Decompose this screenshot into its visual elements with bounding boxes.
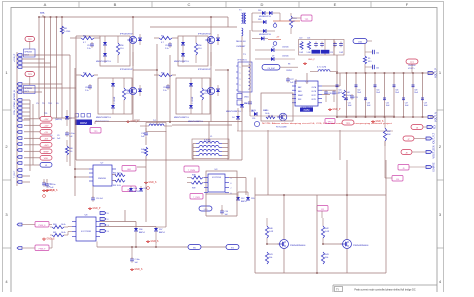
svg-text:a: a <box>240 67 241 69</box>
svg-text:1.0R: 1.0R <box>269 231 274 233</box>
node label box VA1 <box>122 166 136 172</box>
diode D4 <box>232 108 240 131</box>
svg-text:10.0k: 10.0k <box>61 232 66 234</box>
capacitor Cs2 <box>85 84 92 92</box>
port IOUT_FILT <box>426 132 436 144</box>
op-amp U7 SN6505 <box>89 163 116 187</box>
svg-text:C31: C31 <box>244 103 247 105</box>
wire Q5 conns <box>267 195 284 273</box>
wire source Q1 <box>132 44 134 66</box>
wire drain Q3 <box>210 17 212 36</box>
capacitor C29 <box>332 90 340 102</box>
wire bus vertical V1 <box>38 17 40 118</box>
wire outcap drop 8 <box>403 73 405 117</box>
capacitor C21 <box>314 42 318 48</box>
svg-text:10uF: 10uF <box>338 92 342 94</box>
stage box Q3 <box>178 36 208 66</box>
transistor Q3 <box>198 34 215 44</box>
node label VO_SEN oval <box>401 150 426 155</box>
svg-text:MMSZ5248BT1G: MMSZ5248BT1G <box>226 111 241 113</box>
svg-text:10.0k: 10.0k <box>61 224 66 226</box>
wire bus vertical V2 <box>44 17 46 118</box>
svg-text:D30: D30 <box>258 19 261 21</box>
svg-text:a: a <box>240 79 241 81</box>
ground GND_S left <box>45 189 58 192</box>
diode D52 <box>139 186 148 191</box>
svg-text:a: a <box>240 73 241 75</box>
svg-text:1.0W: 1.0W <box>339 52 343 54</box>
text pin notes <box>251 109 267 112</box>
diode Dz4b <box>189 86 193 114</box>
ground GND_P u7 <box>88 207 101 210</box>
diode D17 <box>266 11 280 21</box>
svg-text:C18: C18 <box>85 87 88 89</box>
svg-text:CS_ILIM: CS_ILIM <box>268 68 275 70</box>
svg-text:CON_V PWM_A PWM_B: CON_V PWM_A PWM_B <box>13 90 16 115</box>
node bus label2 <box>75 120 92 126</box>
node circle K2 <box>273 42 277 46</box>
svg-text:B: B <box>114 2 117 7</box>
wire aux bus <box>39 117 75 119</box>
svg-text:VOUT_P: VOUT_P <box>435 68 438 78</box>
op-amp U8 UCC27324 <box>72 215 100 242</box>
wire bridge lower rail <box>95 122 242 125</box>
wire U8 out wires <box>100 222 156 229</box>
node testpoint TP1 box <box>291 15 312 21</box>
ground GND_S diode <box>146 240 159 243</box>
wire red net <box>273 20 300 22</box>
wire source Q4 <box>210 95 212 118</box>
port IN15 <box>17 131 22 134</box>
svg-text:OUTC: OUTC <box>311 95 317 97</box>
ground GND_S out <box>371 120 384 123</box>
node power label P1 <box>40 117 52 122</box>
svg-text:49.9: 49.9 <box>368 61 372 63</box>
resistor Rpd2 <box>122 78 129 114</box>
svg-text:MMSZ5248BT1G: MMSZ5248BT1G <box>174 61 189 63</box>
wire long y116 <box>250 115 395 117</box>
port IN2 <box>17 58 22 61</box>
svg-text:C24: C24 <box>307 38 310 40</box>
resistor R41 <box>265 252 273 264</box>
node label oval E0 <box>188 245 201 250</box>
resistor Rg4 <box>154 73 176 77</box>
wire SR box <box>255 160 386 273</box>
svg-text:PWM_F: PWM_F <box>39 248 47 250</box>
resistor Rg3 <box>154 36 178 45</box>
text CT sense <box>236 46 246 48</box>
svg-text:-15V: -15V <box>44 138 49 140</box>
diode body Q4 <box>216 85 220 96</box>
resistor R6 <box>60 26 71 34</box>
svg-text:C17: C17 <box>165 45 168 47</box>
svg-text:60C3: 60C3 <box>25 91 29 93</box>
text CH3004 VOUT+ <box>408 64 416 73</box>
resistor R63 <box>112 179 125 187</box>
transformer T4 <box>134 120 172 132</box>
ground GND_P bridge <box>126 120 139 123</box>
svg-text:C26: C26 <box>252 118 255 120</box>
svg-text:11.0: 11.0 <box>204 93 208 95</box>
wire phase B rail <box>215 70 228 122</box>
svg-text:Peak current mode controlled p: Peak current mode controlled phase shift… <box>354 289 416 292</box>
svg-text:GND_S: GND_S <box>135 269 143 271</box>
svg-text:IPP50R199CP: IPP50R199CP <box>198 69 212 71</box>
transformer T1 lower winding <box>236 28 246 43</box>
capacitor C52 <box>130 247 139 264</box>
wire outcap drop 6 <box>384 73 386 117</box>
diode D9 <box>255 56 295 62</box>
wire outcap drop 10 <box>422 73 424 117</box>
svg-text:PSMN4R8N0606: PSMN4R8N0606 <box>290 245 306 247</box>
capacitor C30 <box>45 179 55 189</box>
text vertical 1-1206R Q2 <box>114 96 116 104</box>
resistor R49 <box>265 110 275 119</box>
op-amp U5 UCC2895PW <box>292 81 322 109</box>
svg-text:2.2n: 2.2n <box>163 90 167 92</box>
text D16 MURA160T3G <box>259 15 271 18</box>
wire outcap drop 2 <box>346 73 348 117</box>
svg-text:MMSZ5248BT1G: MMSZ5248BT1G <box>188 121 203 123</box>
wire outcap drop 3 <box>355 73 357 117</box>
capacitor C12 <box>65 131 74 138</box>
port IN3 <box>17 62 22 65</box>
svg-text:ISHARE: ISHARE <box>433 162 436 171</box>
wire riser A <box>124 210 126 222</box>
svg-text:11.0: 11.0 <box>198 48 202 50</box>
svg-text:D56: D56 <box>139 229 142 231</box>
capacitor Cout5 <box>374 85 381 94</box>
svg-text:10uF: 10uF <box>395 92 399 94</box>
svg-text:a: a <box>240 91 241 93</box>
wire L1 conns <box>193 144 228 161</box>
port IN6 <box>17 87 22 90</box>
svg-text:60C3: 60C3 <box>25 55 29 57</box>
svg-text:11.0: 11.0 <box>126 93 130 95</box>
resistor Rb2 box <box>237 100 249 105</box>
zone row labels <box>3 70 444 284</box>
svg-text:R56: R56 <box>198 45 201 47</box>
svg-text:OPTO ISO1: OPTO ISO1 <box>237 60 247 62</box>
svg-text:IPP50R199CP: IPP50R199CP <box>120 69 134 71</box>
wire to P3 <box>24 131 40 133</box>
svg-text:R8: R8 <box>288 64 290 66</box>
wire outcap drop 7 <box>393 73 395 117</box>
wire SR top <box>255 194 386 196</box>
net label row caps <box>36 103 59 105</box>
wire xfmr to SR left <box>267 130 269 195</box>
resistor Rpd4 <box>200 78 207 114</box>
snubber box <box>261 93 293 121</box>
wire drop x228 <box>227 17 229 27</box>
node label box T_PWM <box>184 166 199 172</box>
port VOUT_SEN <box>426 145 436 158</box>
svg-text:10uF: 10uF <box>348 105 352 107</box>
capacitor C25 <box>330 42 337 54</box>
resistor Rpd1 <box>116 36 123 63</box>
svg-text:6: 6 <box>231 183 232 185</box>
resistor R60 <box>50 224 72 229</box>
transistor Q2 <box>120 69 137 95</box>
diode Dz4a <box>189 78 193 86</box>
node testpoint TP9 <box>90 128 101 134</box>
svg-text:+12V: +12V <box>44 125 50 127</box>
svg-text:1-1206R: 1-1206R <box>114 96 116 104</box>
ground GND ic <box>328 108 341 111</box>
node label box VA2 <box>122 186 136 192</box>
wire to P2 <box>24 124 40 126</box>
inductor L1 box <box>192 139 229 159</box>
svg-text:D9: D9 <box>272 56 274 58</box>
text MMSZ T4 <box>188 121 203 123</box>
wire U3 outs <box>229 178 255 196</box>
svg-text:SPW20N: SPW20N <box>25 52 33 54</box>
net label VIN_P <box>14 53 16 62</box>
wire phase A rail <box>133 44 157 125</box>
capacitor Cout10 <box>421 98 428 107</box>
stage box Q1 <box>100 36 130 66</box>
port IN23 <box>17 181 22 184</box>
capacitor C33 <box>350 94 358 100</box>
capacitor Cout3 <box>355 85 362 94</box>
resistor Rg2 <box>76 73 98 77</box>
wire left bus <box>16 52 18 186</box>
node TP5 top rail tap <box>40 12 45 17</box>
node power label P7 <box>40 156 52 161</box>
svg-text:GND_S: GND_S <box>151 241 159 243</box>
svg-text:NOTE: Above online damping cir: NOTE: Above online damping circuit D4, C… <box>262 122 393 125</box>
svg-text:C45: C45 <box>376 68 379 70</box>
port U8 out2 <box>100 218 110 222</box>
svg-text:C20: C20 <box>299 38 302 40</box>
svg-text:10uF: 10uF <box>376 92 380 94</box>
svg-text:R62 10.0k: R62 10.0k <box>113 173 121 175</box>
node power label P4 <box>40 136 52 141</box>
wire bottom drops <box>133 118 228 144</box>
capacitor Cout6 <box>383 98 390 107</box>
port IN10 <box>17 107 22 110</box>
svg-text:+3V3: +3V3 <box>44 145 50 147</box>
transistor Q4 <box>198 69 215 95</box>
capacitor C31 <box>244 100 252 112</box>
svg-text:5: 5 <box>231 178 232 180</box>
svg-text:OUTD: OUTD <box>311 99 317 101</box>
svg-text:GND_P: GND_P <box>308 59 316 61</box>
node label box J10 <box>385 141 403 181</box>
transistor Q1 <box>120 34 137 44</box>
ground GND_S u7r <box>144 181 157 189</box>
wire y247 run <box>97 231 228 247</box>
wire bus vertical V5 <box>61 17 63 118</box>
node label box PWM_E <box>35 222 52 228</box>
svg-text:10k: 10k <box>269 257 272 259</box>
resistor R5c <box>363 56 371 73</box>
node label J6 oval <box>411 125 428 130</box>
port IN19 <box>17 156 22 159</box>
svg-text:C54: C54 <box>225 211 228 213</box>
node label oval L10 <box>199 206 212 211</box>
capacitor C26 circle <box>252 118 260 127</box>
capacitor Cs1 <box>87 42 94 50</box>
capacitor C54 <box>220 205 228 216</box>
svg-text:MURA160T3G: MURA160T3G <box>259 15 271 18</box>
capacitor Cout1 <box>336 85 343 94</box>
wire U7 left <box>75 169 89 177</box>
svg-text:BAT54: BAT54 <box>134 190 139 193</box>
svg-text:GND_S: GND_S <box>47 190 55 192</box>
port VOUT_N <box>428 112 438 122</box>
node testpoint TP3 <box>25 72 35 86</box>
diode D32 row4 <box>252 37 268 41</box>
heatsink HS1 <box>24 49 36 57</box>
resistor R19 <box>307 42 311 54</box>
wire source Q2 <box>132 95 134 118</box>
capacitor Cs3 <box>165 42 172 50</box>
svg-text:R56: R56 <box>120 45 123 47</box>
port IN13 <box>17 119 22 122</box>
wire port cluster2 links <box>22 84 70 92</box>
svg-text:REF: REF <box>298 99 301 101</box>
svg-text:IPP50R199CP: IPP50R199CP <box>120 34 134 36</box>
svg-text:T_PWM: T_PWM <box>193 197 200 199</box>
wire x340 drop <box>340 130 347 195</box>
svg-text:GND_S: GND_S <box>376 121 384 123</box>
diode Dz1b <box>103 45 107 63</box>
svg-text:7: 7 <box>231 188 232 190</box>
resistor Rpd3 <box>194 36 201 63</box>
node label box PWM_F <box>35 238 52 251</box>
node testpoint TP2 <box>25 37 35 50</box>
wire source Q3 <box>210 44 212 66</box>
svg-text:BAT54: BAT54 <box>139 231 145 234</box>
wire x70 drop <box>36 38 76 166</box>
svg-text:PDTC114EE: PDTC114EE <box>276 127 287 129</box>
svg-text:1.0W: 1.0W <box>299 52 303 54</box>
node label TP11 oval <box>342 120 354 125</box>
diode D58 <box>236 192 246 203</box>
node label VOUT oval <box>406 59 418 64</box>
port IN8 <box>17 99 22 102</box>
svg-text:1-1206R: 1-1206R <box>192 96 194 104</box>
wire junction dots <box>38 16 423 274</box>
wire to P4 <box>24 137 40 139</box>
diode body Q1 <box>138 34 142 45</box>
port IN21 <box>17 169 22 172</box>
node bus label <box>300 108 313 112</box>
wire bus vertical V4 <box>56 17 58 118</box>
wire top +12V rail <box>39 16 228 18</box>
ground GND_S c52 <box>130 268 143 271</box>
node label IOUT oval <box>403 136 426 141</box>
svg-text:A: A <box>44 2 47 7</box>
diode D56 <box>134 228 145 234</box>
diode Dz2b <box>111 86 115 114</box>
svg-text:MMSZ5248BT1G: MMSZ5248BT1G <box>174 117 189 119</box>
stage box Q2 <box>98 78 132 114</box>
svg-text:BAT54: BAT54 <box>159 231 165 234</box>
svg-text:10uF: 10uF <box>424 105 428 107</box>
node inv label A <box>312 50 321 54</box>
wire VA1 run <box>137 160 146 222</box>
svg-text:PSMN4R8N0606: PSMN4R8N0606 <box>353 245 369 247</box>
svg-text:a: a <box>240 85 241 87</box>
svg-text:MMSZ5248BT1G: MMSZ5248BT1G <box>96 117 111 119</box>
diode D11 <box>240 100 244 112</box>
wire port cluster5 links <box>22 176 30 182</box>
capacitor C36 <box>141 128 148 145</box>
wire red net2 <box>268 37 281 40</box>
svg-text:C17: C17 <box>87 45 90 47</box>
diode D16 <box>252 10 265 15</box>
port VOUT_P <box>428 68 438 78</box>
node label L5 <box>24 163 52 168</box>
resistor R62 <box>112 173 125 177</box>
node circle K1 <box>273 22 277 27</box>
svg-text:E: E <box>334 2 337 7</box>
port ISHARE <box>426 162 436 171</box>
wire to P1 <box>24 118 40 120</box>
svg-text:R38: R38 <box>192 175 195 177</box>
capacitor Cout7 <box>393 85 400 94</box>
wire outcap drop 9 <box>412 73 414 117</box>
wire phase mid <box>169 55 171 122</box>
diode D7 zener <box>65 110 72 126</box>
wire bridge outline <box>76 36 242 160</box>
wire outcap drop 4 <box>365 73 367 117</box>
svg-text:2.2n: 2.2n <box>87 48 91 50</box>
resistor R43 <box>321 252 329 264</box>
svg-text:D57: D57 <box>159 229 162 231</box>
inductor L7 <box>310 67 338 72</box>
port IN4 <box>17 66 22 69</box>
svg-text:C-10n: C-10n <box>135 259 140 261</box>
svg-text:UCC27324D: UCC27324D <box>212 177 222 179</box>
svg-text:5A/5V: 5A/5V <box>251 109 257 112</box>
svg-text:UCC27324D: UCC27324D <box>81 231 92 233</box>
wire IC top <box>296 73 307 84</box>
diode Dz3b <box>181 45 185 63</box>
diode body Q3 <box>216 34 220 45</box>
wire drain Q1 <box>132 17 134 36</box>
svg-text:T_OUT: T_OUT <box>14 170 16 178</box>
svg-text:CS/RESET: CS/RESET <box>236 46 246 48</box>
resistor Rb1 box <box>237 94 249 99</box>
node label CS oval <box>262 64 298 73</box>
wire to P7 <box>24 157 40 159</box>
resistor R42 <box>321 218 329 244</box>
port IN5 <box>17 83 22 86</box>
svg-text:C18: C18 <box>163 87 166 89</box>
svg-text:10.0k: 10.0k <box>265 113 269 115</box>
wire outcap drop 1 <box>336 73 338 117</box>
text note <box>262 122 393 125</box>
svg-text:C50 1uF: C50 1uF <box>96 198 104 200</box>
net label VIN_N <box>13 90 16 115</box>
port U8 out1 <box>100 212 110 216</box>
transformer T3 opto <box>236 54 252 93</box>
ground GND_P T2 <box>303 59 316 65</box>
svg-text:GND_P: GND_P <box>93 208 101 210</box>
svg-text:T_PWM: T_PWM <box>188 170 196 172</box>
svg-text:C: C <box>188 2 191 7</box>
resistor R66 <box>65 140 73 162</box>
port U8 out4 <box>100 230 110 234</box>
capacitor C51 <box>91 186 104 202</box>
resistor R46 <box>141 147 148 160</box>
text MMSZ row <box>95 121 110 123</box>
svg-text:TI: TI <box>336 288 339 292</box>
node label box J9 <box>398 165 426 171</box>
